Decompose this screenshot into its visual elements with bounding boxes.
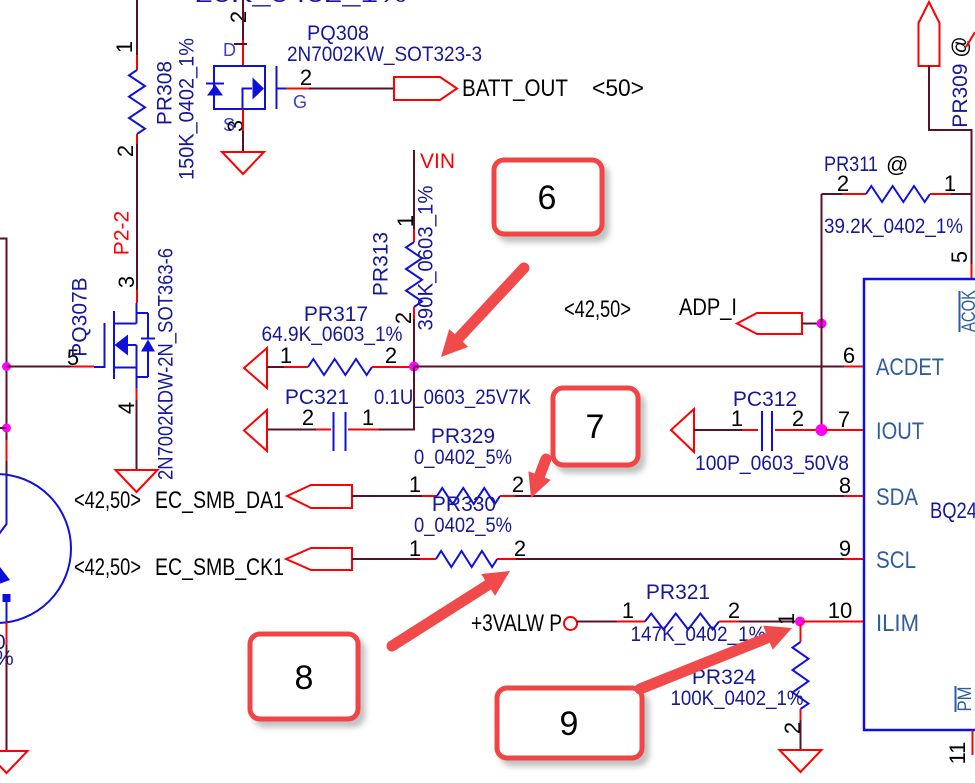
svg-text:2: 2 — [792, 406, 804, 431]
resistor PR311 zigzag — [866, 186, 930, 202]
wire red drain stub PQ308 — [242, 40, 244, 66]
svg-text:2N7002KW_SOT323-3: 2N7002KW_SOT323-3 — [287, 43, 482, 66]
wire CK1 to PR330 — [352, 558, 420, 560]
svg-text:PR308: PR308 — [154, 61, 177, 125]
resistor PR308 zigzag — [129, 70, 145, 134]
collector lead — [0, 474, 7, 534]
svg-text:2: 2 — [113, 145, 138, 157]
svg-text:2: 2 — [226, 11, 251, 23]
svg-text:20K_0402_1%: 20K_0402_1% — [195, 0, 407, 7]
wire red drain stub PQ307B — [136, 290, 138, 303]
open terminal triangle PR317 — [244, 348, 267, 388]
emitter arrowhead — [0, 567, 10, 585]
wire +3VALW to PR321 — [577, 621, 617, 623]
node junction at gate wire — [2, 362, 11, 371]
wire gate to BATT_OUT — [309, 88, 394, 90]
wire red source stub PQ308 — [242, 109, 244, 131]
svg-text:8: 8 — [295, 659, 314, 697]
wire ACDET long horizontal — [414, 366, 844, 368]
wire red ACDET pin stub — [844, 366, 864, 368]
body diode of PQ307B — [137, 313, 149, 377]
svg-text:11: 11 — [945, 742, 970, 765]
svg-text:1: 1 — [622, 598, 634, 623]
wire emitter to ground — [6, 645, 8, 751]
capacitor PC312 plates — [762, 411, 772, 451]
wire red pin11 stub — [972, 730, 974, 755]
svg-text:1: 1 — [409, 472, 421, 497]
wire red pin2 stub PR329 — [500, 495, 515, 497]
svg-text:EC_SMB_DA1: EC_SMB_DA1 — [155, 487, 284, 514]
svg-text:ACOK: ACOK — [959, 290, 975, 332]
transistor in circle bottom left — [0, 474, 71, 623]
ground below PQ307B — [116, 470, 158, 492]
wire red pin1 stub PR330 — [420, 558, 436, 560]
channel arrow — [243, 89, 253, 110]
wire red stub into circle transistor collector — [6, 440, 8, 461]
connector EC_SMB_CK1 — [286, 548, 352, 570]
svg-text:P2-2: P2-2 — [111, 211, 134, 255]
callout arrow 8 — [392, 571, 510, 646]
node ADP_I junction — [817, 319, 827, 329]
resistor PR317 zigzag — [308, 359, 372, 375]
svg-text:39.2K_0402_1%: 39.2K_0402_1% — [824, 215, 963, 238]
svg-text:PM: PM — [955, 687, 975, 712]
svg-text:ACDET: ACDET — [876, 354, 944, 381]
svg-text:SCL: SCL — [876, 547, 916, 574]
svg-text:390K_0603_1%: 390K_0603_1% — [415, 186, 438, 331]
source lead — [114, 368, 137, 389]
body diode bar — [206, 83, 224, 85]
transistor circle — [0, 474, 71, 623]
callout box 7 — [553, 388, 638, 465]
svg-text:2N7002KDW-2N_SOT363-6: 2N7002KDW-2N_SOT363-6 — [155, 248, 178, 480]
wire red pin2 stub PR308 — [136, 134, 138, 144]
wire red pin5 stub — [971, 264, 973, 279]
callout arrow 6 — [441, 268, 524, 357]
wire red ILIM pin stub — [802, 621, 864, 623]
svg-text:IOUT: IOUT — [876, 418, 924, 445]
node ILIM junction — [795, 617, 805, 627]
connector ADP_I — [737, 313, 802, 334]
wire red pin2 stub PC321 — [316, 429, 331, 431]
svg-text:SDA: SDA — [876, 484, 918, 511]
svg-text:3: 3 — [223, 120, 248, 132]
svg-text:1: 1 — [774, 613, 799, 625]
gate lead — [94, 323, 105, 367]
svg-text:PQ307B: PQ307B — [69, 277, 92, 356]
emitter square — [3, 594, 11, 602]
svg-text:BATT_OUT: BATT_OUT — [462, 75, 568, 102]
svg-text:0_0402_5%: 0_0402_5% — [414, 446, 512, 469]
transistor PQ307B symbol — [94, 303, 155, 388]
wire red pin2 stub PR321 — [719, 621, 739, 623]
svg-text:2: 2 — [837, 171, 849, 196]
IC BQ24 outline — [864, 279, 975, 730]
svg-text:<42,50>: <42,50> — [74, 554, 141, 581]
wire red pin1 stub PR313 — [413, 229, 415, 242]
wire P2-2 net middle — [136, 144, 138, 290]
svg-text:PR311: PR311 — [824, 153, 878, 176]
wire gate of PQ307B — [7, 366, 72, 368]
ground below PR324 — [780, 750, 822, 772]
connector BATT_OUT — [394, 77, 457, 100]
svg-text:PR329: PR329 — [431, 425, 495, 448]
wire terminal to PC312 — [694, 429, 742, 431]
node ACDET junction — [409, 362, 419, 372]
node junction at left stub — [2, 424, 11, 433]
svg-text:4: 4 — [114, 402, 139, 414]
svg-text:1: 1 — [944, 171, 956, 196]
wire red pin1 stub PR311 — [930, 193, 951, 195]
wire red gate pin stub — [71, 366, 94, 368]
wire red pin2 stub PR311 — [842, 193, 866, 195]
resistor PR313 zigzag — [406, 242, 422, 307]
resistor PR330 zigzag — [436, 551, 497, 567]
wire SDA long — [515, 495, 844, 497]
svg-text:100K_0402_1%: 100K_0402_1% — [671, 687, 804, 710]
wire PC321 to terminal — [267, 429, 316, 431]
connector EC_SMB_DA1 — [287, 485, 352, 508]
wire collector into circle — [6, 461, 8, 474]
svg-text:EC_SMB_CK1: EC_SMB_CK1 — [155, 554, 284, 581]
wire PR311 to right vertical — [951, 193, 972, 195]
svg-text:2: 2 — [728, 598, 740, 623]
svg-text:6: 6 — [538, 179, 557, 217]
svg-text:VIN: VIN — [420, 150, 455, 173]
svg-text:3: 3 — [114, 276, 139, 288]
wire red emitter stub — [6, 622, 8, 645]
wire red pin1 stub PR321 — [617, 621, 645, 623]
wire SCL long — [516, 558, 844, 560]
wire red source stub PQ307B — [136, 388, 138, 400]
body diode triangle — [207, 85, 223, 96]
svg-text:+3VALW P: +3VALW P — [471, 610, 562, 637]
svg-text:1: 1 — [409, 536, 421, 561]
wire red pin1 stub PR329 — [422, 495, 437, 497]
wire red pin1 stub PC312 — [742, 429, 758, 431]
body lead with arrow — [126, 345, 137, 368]
svg-text:9: 9 — [839, 536, 851, 561]
callout arrow 9 — [640, 626, 792, 689]
wire ADP_I to junction — [802, 323, 818, 325]
svg-text:6: 6 — [843, 343, 855, 368]
wire red pin2 stub PR324 — [800, 709, 802, 720]
svg-text:<42,50>: <42,50> — [564, 296, 631, 323]
svg-text:PR309 @: PR309 @ — [949, 36, 972, 127]
wire red pin2 stub PR313 — [413, 307, 415, 319]
svg-text:2: 2 — [512, 472, 524, 497]
callout box 9 — [497, 688, 642, 758]
open terminal triangle PC312 — [671, 409, 694, 452]
wire vertical ADP_I net — [821, 194, 823, 430]
wire source to ground — [136, 400, 138, 470]
svg-text:1: 1 — [280, 343, 292, 368]
svg-text:G: G — [293, 92, 307, 112]
wire red pin1 stub PC321 — [348, 429, 379, 431]
wire red SCL pin stub — [844, 558, 864, 560]
wire red pin2 stub PC312 — [775, 429, 819, 431]
svg-text:ILIM: ILIM — [876, 610, 919, 637]
callout box 8 — [250, 634, 358, 719]
svg-text:PR313: PR313 — [370, 232, 393, 296]
wire DA1 to PR329 — [352, 495, 422, 497]
svg-text:1: 1 — [731, 406, 743, 431]
ground bottom left — [0, 751, 28, 773]
svg-text:2: 2 — [300, 65, 312, 90]
svg-text:PR321: PR321 — [646, 581, 710, 604]
resistor PR321 zigzag — [645, 614, 719, 630]
wire red pin2 stub PR317 — [372, 366, 410, 368]
symbol body rectangle — [214, 66, 265, 109]
wire left vertical net top corner — [0, 239, 7, 441]
svg-text:1: 1 — [362, 405, 374, 430]
svg-text:1: 1 — [112, 41, 137, 53]
wire red gate stub PQ308 — [286, 88, 309, 90]
wire PR313 to junction — [413, 319, 415, 367]
svg-text:8: 8 — [839, 473, 851, 498]
svg-text:PC321: PC321 — [285, 386, 349, 409]
svg-text:<42,50>: <42,50> — [74, 487, 141, 514]
svg-text:PQ308: PQ308 — [307, 22, 369, 45]
wire junction down to PC321 — [379, 367, 414, 430]
svg-text:100P_0603_50V8: 100P_0603_50V8 — [695, 452, 849, 475]
ground below PQ308 — [222, 152, 264, 174]
svg-text:BQ24: BQ24 — [930, 498, 975, 523]
svg-text:@: @ — [886, 152, 908, 177]
node IOUT junction — [816, 424, 828, 436]
wire main vertical P2-2 net top — [136, 0, 138, 55]
capacitor PC321 plates — [334, 412, 346, 451]
wire red pin1 stub PR308 — [136, 55, 138, 70]
power symbol circle — [564, 617, 577, 630]
wire red pin2 stub PR330 — [497, 558, 516, 560]
wire PR311 left bend — [822, 193, 843, 195]
gate lead — [277, 88, 286, 90]
wire red IOUT pin stub — [825, 429, 864, 431]
wire red SDA pin stub — [844, 495, 864, 497]
svg-text:150K_0402_1%: 150K_0402_1% — [176, 38, 199, 180]
wire red pin1 stub PR317 — [284, 366, 308, 368]
svg-text:ADP_I: ADP_I — [679, 294, 737, 321]
svg-text:7: 7 — [838, 407, 850, 432]
transistor PQ308 symbol — [206, 66, 286, 109]
red tick top right — [966, 32, 975, 47]
pin D tick — [234, 43, 247, 45]
gate bar — [276, 66, 278, 109]
svg-text:2: 2 — [385, 343, 397, 368]
svg-text:9: 9 — [560, 705, 579, 743]
open terminal triangle PC321 — [244, 410, 267, 451]
svg-text:5: 5 — [947, 251, 972, 263]
svg-text:<50>: <50> — [592, 75, 644, 102]
wire red pin1 stub PR324 — [800, 624, 802, 642]
svg-text:PR330: PR330 — [432, 493, 496, 516]
svg-text:2: 2 — [514, 536, 526, 561]
svg-text:10: 10 — [828, 598, 852, 623]
svg-text:0.1U_0603_25V7K: 0.1U_0603_25V7K — [374, 386, 531, 409]
resistor PR324 zigzag — [793, 642, 809, 709]
channel bar — [113, 311, 115, 379]
wire PR321 to junction — [739, 621, 797, 623]
emitter lead — [6, 602, 8, 622]
connector top right pointing up — [919, 2, 940, 66]
wire connector down — [929, 66, 972, 264]
svg-text:0_0402_5%: 0_0402_5% — [414, 514, 512, 537]
resistor PR329 zigzag — [437, 488, 500, 504]
wire terminal to PR317 — [267, 366, 284, 368]
callout arrow 7 — [528, 459, 550, 498]
callout box 6 — [494, 160, 602, 234]
wire source to ground PQ308 — [242, 131, 244, 152]
wire VIN net down — [413, 150, 415, 229]
drain lead — [114, 303, 137, 324]
wire PQ308 drain from top — [242, 0, 244, 40]
wire short left stub — [0, 427, 7, 429]
wire PR324 to ground — [800, 720, 802, 750]
svg-text:7: 7 — [586, 408, 605, 446]
